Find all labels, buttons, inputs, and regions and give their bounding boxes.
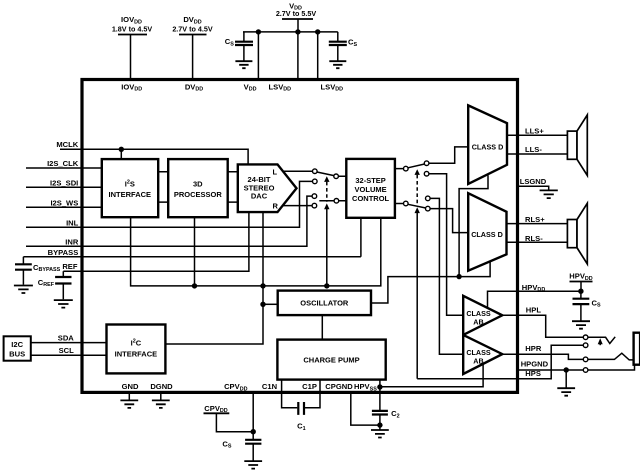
svg-text:CONTROL: CONTROL xyxy=(352,194,389,203)
svg-text:CHARGE PUMP: CHARGE PUMP xyxy=(303,356,359,365)
svg-text:RLS-: RLS- xyxy=(525,234,543,243)
svg-text:HPL: HPL xyxy=(526,306,542,315)
svg-text:I2S: I2S xyxy=(125,179,135,188)
svg-text:CLASS D: CLASS D xyxy=(472,143,504,152)
svg-text:GND: GND xyxy=(122,382,139,391)
svg-text:PROCESSOR: PROCESSOR xyxy=(174,190,223,199)
svg-text:RLS+: RLS+ xyxy=(525,215,545,224)
svg-text:SCL: SCL xyxy=(59,346,75,355)
svg-text:I2C: I2C xyxy=(11,340,23,349)
svg-text:DAC: DAC xyxy=(251,192,268,201)
svg-text:MCLK: MCLK xyxy=(56,140,78,149)
svg-text:LLS+: LLS+ xyxy=(525,126,544,135)
svg-text:CPGND: CPGND xyxy=(325,382,353,391)
svg-text:LSGND: LSGND xyxy=(520,177,547,186)
svg-text:INR: INR xyxy=(65,238,79,247)
svg-text:AB: AB xyxy=(473,357,483,366)
svg-text:AB: AB xyxy=(473,318,483,327)
svg-text:3D: 3D xyxy=(193,179,203,188)
svg-text:BYPASS: BYPASS xyxy=(48,248,79,257)
svg-text:SDA: SDA xyxy=(58,333,75,342)
svg-text:BUS: BUS xyxy=(9,350,25,359)
svg-text:HPR: HPR xyxy=(525,344,542,353)
svg-text:32-STEP: 32-STEP xyxy=(355,176,385,185)
svg-text:L: L xyxy=(273,168,278,177)
svg-text:DGND: DGND xyxy=(150,382,173,391)
svg-text:I2S_SDI: I2S_SDI xyxy=(50,178,78,187)
svg-text:C1P: C1P xyxy=(302,382,317,391)
svg-text:I2S_CLK: I2S_CLK xyxy=(47,159,79,168)
svg-text:1.8V to 4.5V: 1.8V to 4.5V xyxy=(112,25,153,34)
svg-text:2.7V to 5.5V: 2.7V to 5.5V xyxy=(276,9,317,18)
svg-text:I2C: I2C xyxy=(131,338,142,347)
svg-text:2.7V to 4.5V: 2.7V to 4.5V xyxy=(172,25,213,34)
svg-text:R: R xyxy=(272,201,278,210)
svg-text:INTERFACE: INTERFACE xyxy=(115,349,158,358)
svg-text:REF: REF xyxy=(62,262,78,271)
svg-text:I2S_WS: I2S_WS xyxy=(50,199,78,208)
svg-text:INL: INL xyxy=(66,219,79,228)
svg-text:INTERFACE: INTERFACE xyxy=(109,190,152,199)
svg-text:LLS-: LLS- xyxy=(525,145,542,154)
svg-text:VOLUME: VOLUME xyxy=(355,185,387,194)
svg-text:CLASS D: CLASS D xyxy=(471,230,503,239)
svg-text:HPS: HPS xyxy=(525,369,541,378)
svg-text:C1N: C1N xyxy=(262,382,277,391)
svg-text:HPGND: HPGND xyxy=(521,359,549,368)
svg-text:OSCILLATOR: OSCILLATOR xyxy=(300,299,349,308)
